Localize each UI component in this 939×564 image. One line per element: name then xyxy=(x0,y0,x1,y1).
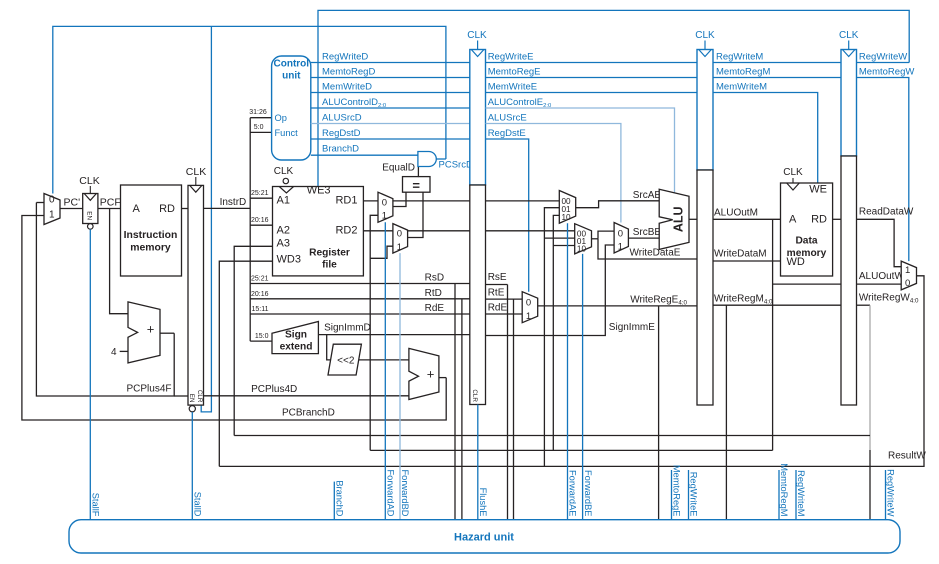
svg-text:+: + xyxy=(147,322,155,337)
wire ALU output ALUOutM xyxy=(689,218,697,220)
wire ResultW riser to forward muxes xyxy=(544,208,559,467)
wire RsE to hazard tap xyxy=(486,284,508,286)
wire Op field 31:26 xyxy=(250,117,271,119)
instruction memory box xyxy=(121,185,182,276)
svg-text:1: 1 xyxy=(397,242,402,253)
svg-text:SrcAE: SrcAE xyxy=(633,190,662,201)
mux forward BE xyxy=(575,224,592,254)
wire PCBranchD to PC mux input 1 xyxy=(22,216,446,421)
svg-text:ForwardBE: ForwardBE xyxy=(583,470,593,517)
svg-text:ALU: ALU xyxy=(672,206,686,232)
wire SignImmD tap to shifter xyxy=(327,335,331,360)
svg-text:RegDstE: RegDstE xyxy=(488,128,526,139)
svg-text:MemWriteD: MemWriteD xyxy=(322,82,372,93)
wire EqualD to AND gate xyxy=(417,166,419,177)
mux ResultW xyxy=(901,261,916,290)
wire RdE to WriteReg mux xyxy=(486,313,523,315)
hazard unit box xyxy=(69,520,900,553)
wire immediate field 15:0 xyxy=(250,340,272,342)
enable bubble of PC register xyxy=(88,224,94,230)
svg-text:Op: Op xyxy=(275,113,287,123)
svg-text:RegWriteM: RegWriteM xyxy=(716,52,763,63)
svg-text:RdE: RdE xyxy=(488,303,508,314)
wire forward mux B output xyxy=(592,238,599,240)
svg-text:EqualD: EqualD xyxy=(382,162,415,173)
wire WriteRegW to hazard xyxy=(869,450,871,520)
mux PC source xyxy=(44,194,60,225)
ALU xyxy=(659,189,689,249)
wire A3 from WriteRegW xyxy=(234,246,272,435)
register EM datapath part xyxy=(697,170,713,405)
wire ALUOutM feedback riser to compare mux 1 xyxy=(370,215,378,450)
wire MemtoRegD xyxy=(311,77,470,79)
wire RegWriteD xyxy=(311,62,470,64)
svg-text:memory: memory xyxy=(130,243,171,254)
wire StallD from hazard xyxy=(191,412,193,520)
wire ALUOutM feedback branch to compare mux 2 xyxy=(370,246,393,258)
wire BranchD xyxy=(311,154,418,156)
svg-text:A: A xyxy=(133,203,141,215)
svg-text:10: 10 xyxy=(562,213,572,222)
wire instruction memory RD to FD register xyxy=(182,208,189,210)
mux WriteRegE select xyxy=(522,292,538,323)
svg-text:A1: A1 xyxy=(277,195,290,207)
svg-text:RsE: RsE xyxy=(488,272,507,283)
wire shifter output to branch adder xyxy=(359,359,409,361)
wire RegWriteW feedback to WE3 (top line) xyxy=(318,10,909,186)
wire ALUOutM riser to forward muxes xyxy=(553,215,559,450)
wire RsD tap to hazard xyxy=(454,284,456,520)
wire InstrD xyxy=(204,207,251,209)
register PC xyxy=(83,194,98,224)
wire RegWriteM xyxy=(713,62,841,64)
svg-text:RtE: RtE xyxy=(488,287,505,298)
svg-text:PCF: PCF xyxy=(100,197,121,209)
wire RegWriteM stub to hazard xyxy=(795,470,797,520)
svg-text:WD3: WD3 xyxy=(277,253,301,265)
wire SrcBE mux input 0 xyxy=(598,231,614,239)
data memory box xyxy=(781,183,833,276)
wire WriteRegW xyxy=(857,304,871,306)
wire data memory RD to MW register xyxy=(833,218,841,220)
svg-text:RD1: RD1 xyxy=(335,195,357,207)
wire MemtoRegM stub to hazard xyxy=(778,470,780,520)
svg-text:20:16: 20:16 xyxy=(251,217,269,224)
wire ForwardBE from hazard xyxy=(582,254,584,520)
wire SignImmD xyxy=(318,334,469,336)
svg-text:31:26: 31:26 xyxy=(249,109,267,116)
shift left 2 box xyxy=(328,344,361,375)
wire RD2 to compare mux and DE register xyxy=(364,230,470,232)
register EM control part xyxy=(697,50,713,171)
svg-text:RegWriteD: RegWriteD xyxy=(322,52,368,63)
wire FlushE from hazard xyxy=(477,405,479,520)
wire MemtoRegW to result mux select xyxy=(857,78,909,262)
wire RD1E to forward mux A xyxy=(486,200,560,202)
wire Funct field 5:0 xyxy=(250,131,271,133)
svg-text:WriteDataE: WriteDataE xyxy=(630,248,681,259)
svg-text:RsD: RsD xyxy=(425,273,444,284)
svg-text:=: = xyxy=(412,178,420,193)
wire ALUOutM to data memory xyxy=(713,218,781,220)
svg-text:MemtoRegE: MemtoRegE xyxy=(488,67,541,78)
svg-text:0: 0 xyxy=(49,195,55,206)
svg-text:CLK: CLK xyxy=(695,30,715,41)
svg-text:0: 0 xyxy=(618,229,623,240)
svg-text:ALUSrcE: ALUSrcE xyxy=(488,113,527,124)
wire RsD field 25:21 xyxy=(250,283,470,285)
svg-text:MemWriteM: MemWriteM xyxy=(716,82,767,93)
wire RegWriteE xyxy=(486,62,698,64)
clock bubble of register file xyxy=(283,178,288,183)
wire MemtoRegE xyxy=(486,77,698,79)
svg-text:ALUOutW: ALUOutW xyxy=(859,271,905,282)
wire WriteRegW 4:0 return line xyxy=(234,435,870,437)
adder PCPlus4F xyxy=(128,302,160,363)
svg-text:StallD: StallD xyxy=(193,492,203,517)
svg-text:file: file xyxy=(322,260,337,271)
svg-text:SrcBE: SrcBE xyxy=(633,227,662,238)
wire ALUOutM branch to forward mux B xyxy=(553,245,574,247)
svg-text:PCPlus4F: PCPlus4F xyxy=(127,384,172,395)
wire RtD tap to hazard xyxy=(461,299,463,520)
mux forward AD compare xyxy=(378,192,393,222)
svg-text:CLK: CLK xyxy=(467,30,487,41)
wire WriteDataM to data memory xyxy=(713,260,781,262)
enable bubble of FD register xyxy=(189,406,195,412)
svg-text:ALUControlE2:0: ALUControlE2:0 xyxy=(488,97,552,109)
svg-text:A2: A2 xyxy=(277,225,290,237)
wire MemtoRegE stub to hazard xyxy=(671,470,673,520)
svg-text:RD: RD xyxy=(811,214,827,226)
svg-text:0: 0 xyxy=(526,297,531,308)
svg-text:ForwardBD: ForwardBD xyxy=(400,469,410,516)
wire WD3 from ResultW xyxy=(219,261,272,466)
svg-text:SignImmE: SignImmE xyxy=(609,322,655,333)
svg-text:StallF: StallF xyxy=(90,493,100,517)
wire MemtoRegM xyxy=(713,77,841,79)
register MW control part xyxy=(841,50,857,157)
wire WriteRegM xyxy=(713,304,841,306)
register FD pipeline xyxy=(188,185,204,405)
svg-text:Sign: Sign xyxy=(285,330,307,341)
svg-text:0: 0 xyxy=(397,229,402,240)
svg-text:RD: RD xyxy=(159,203,175,215)
svg-text:CLK: CLK xyxy=(79,175,99,187)
svg-text:WriteDataM: WriteDataM xyxy=(714,249,767,260)
svg-text:15:0: 15:0 xyxy=(255,333,269,340)
svg-text:CLR: CLR xyxy=(471,389,478,402)
wire ReadDataW to result mux xyxy=(857,219,902,266)
svg-text:CLK: CLK xyxy=(783,167,803,178)
wire RegWriteW to feedback xyxy=(857,62,910,64)
wire ForwardBD from hazard xyxy=(399,253,401,520)
svg-text:1: 1 xyxy=(618,241,623,252)
svg-text:PCBranchD: PCBranchD xyxy=(282,408,335,419)
wire ForwardAE from hazard xyxy=(567,223,569,520)
svg-text:MemtoRegW: MemtoRegW xyxy=(859,67,914,78)
equality comparator box xyxy=(403,177,431,193)
wire RD1 to compare mux and DE register xyxy=(364,200,470,202)
wire SignImmE to SrcB mux input 1 xyxy=(486,245,615,336)
svg-text:WE3: WE3 xyxy=(307,185,331,197)
svg-text:RegWriteW: RegWriteW xyxy=(859,52,907,63)
wire mux1 output to equality comparator xyxy=(393,192,406,206)
svg-text:RegWriteE: RegWriteE xyxy=(488,52,534,63)
wire RegWriteW stub to hazard xyxy=(885,470,887,520)
svg-text:RegWriteE: RegWriteE xyxy=(689,472,699,517)
AND gate PCSrcD xyxy=(418,152,436,167)
wire mux2 output to equality comparator xyxy=(408,192,423,237)
svg-text:EN: EN xyxy=(85,211,92,220)
svg-text:MemWriteE: MemWriteE xyxy=(488,82,537,93)
adder PCBranch xyxy=(409,348,439,399)
svg-text:RegWriteW: RegWriteW xyxy=(886,469,896,517)
svg-text:PC': PC' xyxy=(64,197,81,209)
svg-text:RD2: RD2 xyxy=(335,225,357,237)
svg-text:ReadDataW: ReadDataW xyxy=(859,207,914,218)
wire PCPlus4F to PC mux input 0 xyxy=(36,203,174,397)
mux SrcBE xyxy=(614,223,628,254)
svg-text:Instruction: Instruction xyxy=(124,230,178,241)
svg-text:1: 1 xyxy=(905,265,910,276)
svg-text:PCPlus4D: PCPlus4D xyxy=(251,384,297,395)
svg-text:RegDstD: RegDstD xyxy=(322,128,361,139)
wire InstrD bus vertical xyxy=(249,118,251,341)
wire MemWriteD xyxy=(311,92,470,94)
svg-text:+: + xyxy=(427,367,435,382)
svg-text:RegWriteM: RegWriteM xyxy=(796,470,806,516)
svg-text:CLK: CLK xyxy=(274,166,294,177)
wire PCSrcD to PC mux and FD clear (top line) xyxy=(53,26,446,193)
wire PCPlus4F adder output xyxy=(160,332,174,334)
wire BranchD stub to hazard unit xyxy=(333,482,335,520)
wire ForwardAD from hazard xyxy=(384,222,386,519)
svg-text:SignImmD: SignImmD xyxy=(324,323,371,334)
sign extend box xyxy=(272,322,318,354)
wire ALUSrcE to SrcB mux select xyxy=(486,124,621,223)
svg-text:ALUControlD2:0: ALUControlD2:0 xyxy=(322,97,387,109)
wire MemWriteM to data memory WE xyxy=(713,93,818,184)
wire RtD field 20:16 xyxy=(250,298,470,300)
wire RD2E to forward mux B xyxy=(486,230,575,232)
register file box xyxy=(273,187,364,276)
wire ALUOutW to result mux xyxy=(857,283,902,285)
wire SrcAE from forward mux A to ALU xyxy=(576,201,660,208)
svg-text:20:16: 20:16 xyxy=(251,291,269,298)
wire ALUOutW into MW register xyxy=(773,283,841,285)
svg-text:BranchD: BranchD xyxy=(322,144,359,155)
svg-text:10: 10 xyxy=(577,245,587,254)
wire PCSrcD branch to FD register CLR xyxy=(201,26,211,412)
svg-text:25:21: 25:21 xyxy=(251,276,269,283)
svg-text:ForwardAD: ForwardAD xyxy=(386,469,396,516)
register MW datapath part xyxy=(841,156,857,405)
svg-text:RtD: RtD xyxy=(425,288,442,299)
svg-text:MemtoRegM: MemtoRegM xyxy=(716,67,770,78)
wire PCF tap to +4 adder xyxy=(110,209,128,314)
wire RegWriteE stub to hazard xyxy=(688,470,690,520)
wire ALUOutM feedback riser xyxy=(772,219,774,450)
wire A1 field 25:21 xyxy=(250,197,272,199)
svg-text:CLK: CLK xyxy=(839,30,859,41)
wire WriteRegE xyxy=(538,305,697,307)
wire PCPlus4D to branch adder xyxy=(204,395,409,397)
wire AND gate output to PCSrcD riser xyxy=(436,158,446,160)
svg-text:1: 1 xyxy=(49,209,55,220)
svg-text:unit: unit xyxy=(282,71,301,82)
wire SrcBE to ALU xyxy=(628,237,659,239)
wire WriteRegE tap to hazard xyxy=(658,306,660,520)
svg-text:MemtoRegE: MemtoRegE xyxy=(672,465,682,517)
wire constant 4 stub xyxy=(120,350,128,352)
svg-text:Register: Register xyxy=(309,248,350,259)
svg-text:1: 1 xyxy=(526,311,531,322)
svg-text:5:0: 5:0 xyxy=(254,124,264,131)
register DE datapath part xyxy=(470,185,486,405)
svg-text:ResultW: ResultW xyxy=(888,451,926,462)
svg-text:ALUOutM: ALUOutM xyxy=(714,208,758,219)
svg-text:InstrD: InstrD xyxy=(220,197,247,208)
wire ALUSrcD xyxy=(311,123,470,125)
register DE control part xyxy=(470,50,486,186)
wire ResultW branch to forward mux B xyxy=(544,237,574,239)
svg-text:0: 0 xyxy=(905,278,910,289)
svg-text:25:21: 25:21 xyxy=(251,190,269,197)
mux forward AE xyxy=(559,191,575,224)
wire RdD field 15:11 xyxy=(250,313,470,315)
svg-text:MemtoRegM: MemtoRegM xyxy=(779,463,789,516)
svg-text:0: 0 xyxy=(382,198,387,209)
svg-text:WE: WE xyxy=(809,184,827,196)
svg-text:ForwardAE: ForwardAE xyxy=(568,470,578,517)
svg-text:PCSrcD: PCSrcD xyxy=(439,160,473,171)
wire WriteRegM tap to hazard xyxy=(725,305,727,520)
wire RtE to WriteReg mux xyxy=(486,298,523,300)
svg-text:Data: Data xyxy=(795,236,817,247)
svg-text:CLK: CLK xyxy=(186,166,206,178)
svg-text:Control: Control xyxy=(274,59,310,70)
svg-text:A3: A3 xyxy=(277,237,290,249)
svg-text:<<2: <<2 xyxy=(337,356,355,367)
svg-text:WD: WD xyxy=(787,256,805,268)
svg-text:Hazard unit: Hazard unit xyxy=(454,532,514,544)
svg-text:EN: EN xyxy=(188,394,195,403)
wire branch adder output xyxy=(439,377,446,379)
svg-text:FlushE: FlushE xyxy=(478,488,488,517)
wire ResultW xyxy=(219,276,924,467)
wire RtE tap to hazard xyxy=(513,299,515,520)
wire PC-prime xyxy=(60,208,83,210)
wire RegDstE to WriteReg mux select xyxy=(486,139,529,292)
svg-text:MemtoRegD: MemtoRegD xyxy=(322,67,375,78)
mux forward BD compare xyxy=(393,224,408,254)
control unit box xyxy=(272,56,311,160)
svg-text:RdE: RdE xyxy=(425,303,445,314)
wire WriteRegW riser grey xyxy=(869,305,871,450)
wire RegDstD xyxy=(311,138,470,140)
svg-text:ALUSrcD: ALUSrcD xyxy=(322,113,362,124)
wire PCF xyxy=(98,208,121,210)
svg-text:Funct: Funct xyxy=(275,128,299,138)
svg-text:A: A xyxy=(789,214,797,226)
wire StallF from hazard xyxy=(89,229,91,520)
wire WriteDataE xyxy=(598,239,697,259)
wire ALUOutM feedback return line xyxy=(370,449,772,451)
wire ALUControlD xyxy=(311,107,470,109)
wire MemWriteE xyxy=(486,92,698,94)
wire ALUControlE to ALU xyxy=(486,108,675,193)
svg-text:4: 4 xyxy=(111,347,117,358)
svg-text:1: 1 xyxy=(382,210,387,221)
svg-text:15:11: 15:11 xyxy=(252,306,269,313)
wire A2 field 20:16 xyxy=(250,224,272,226)
svg-text:CLR: CLR xyxy=(196,390,203,403)
wire PCPlus4F into FD register xyxy=(174,395,188,397)
svg-text:extend: extend xyxy=(280,342,313,353)
svg-text:BranchD: BranchD xyxy=(335,480,345,516)
